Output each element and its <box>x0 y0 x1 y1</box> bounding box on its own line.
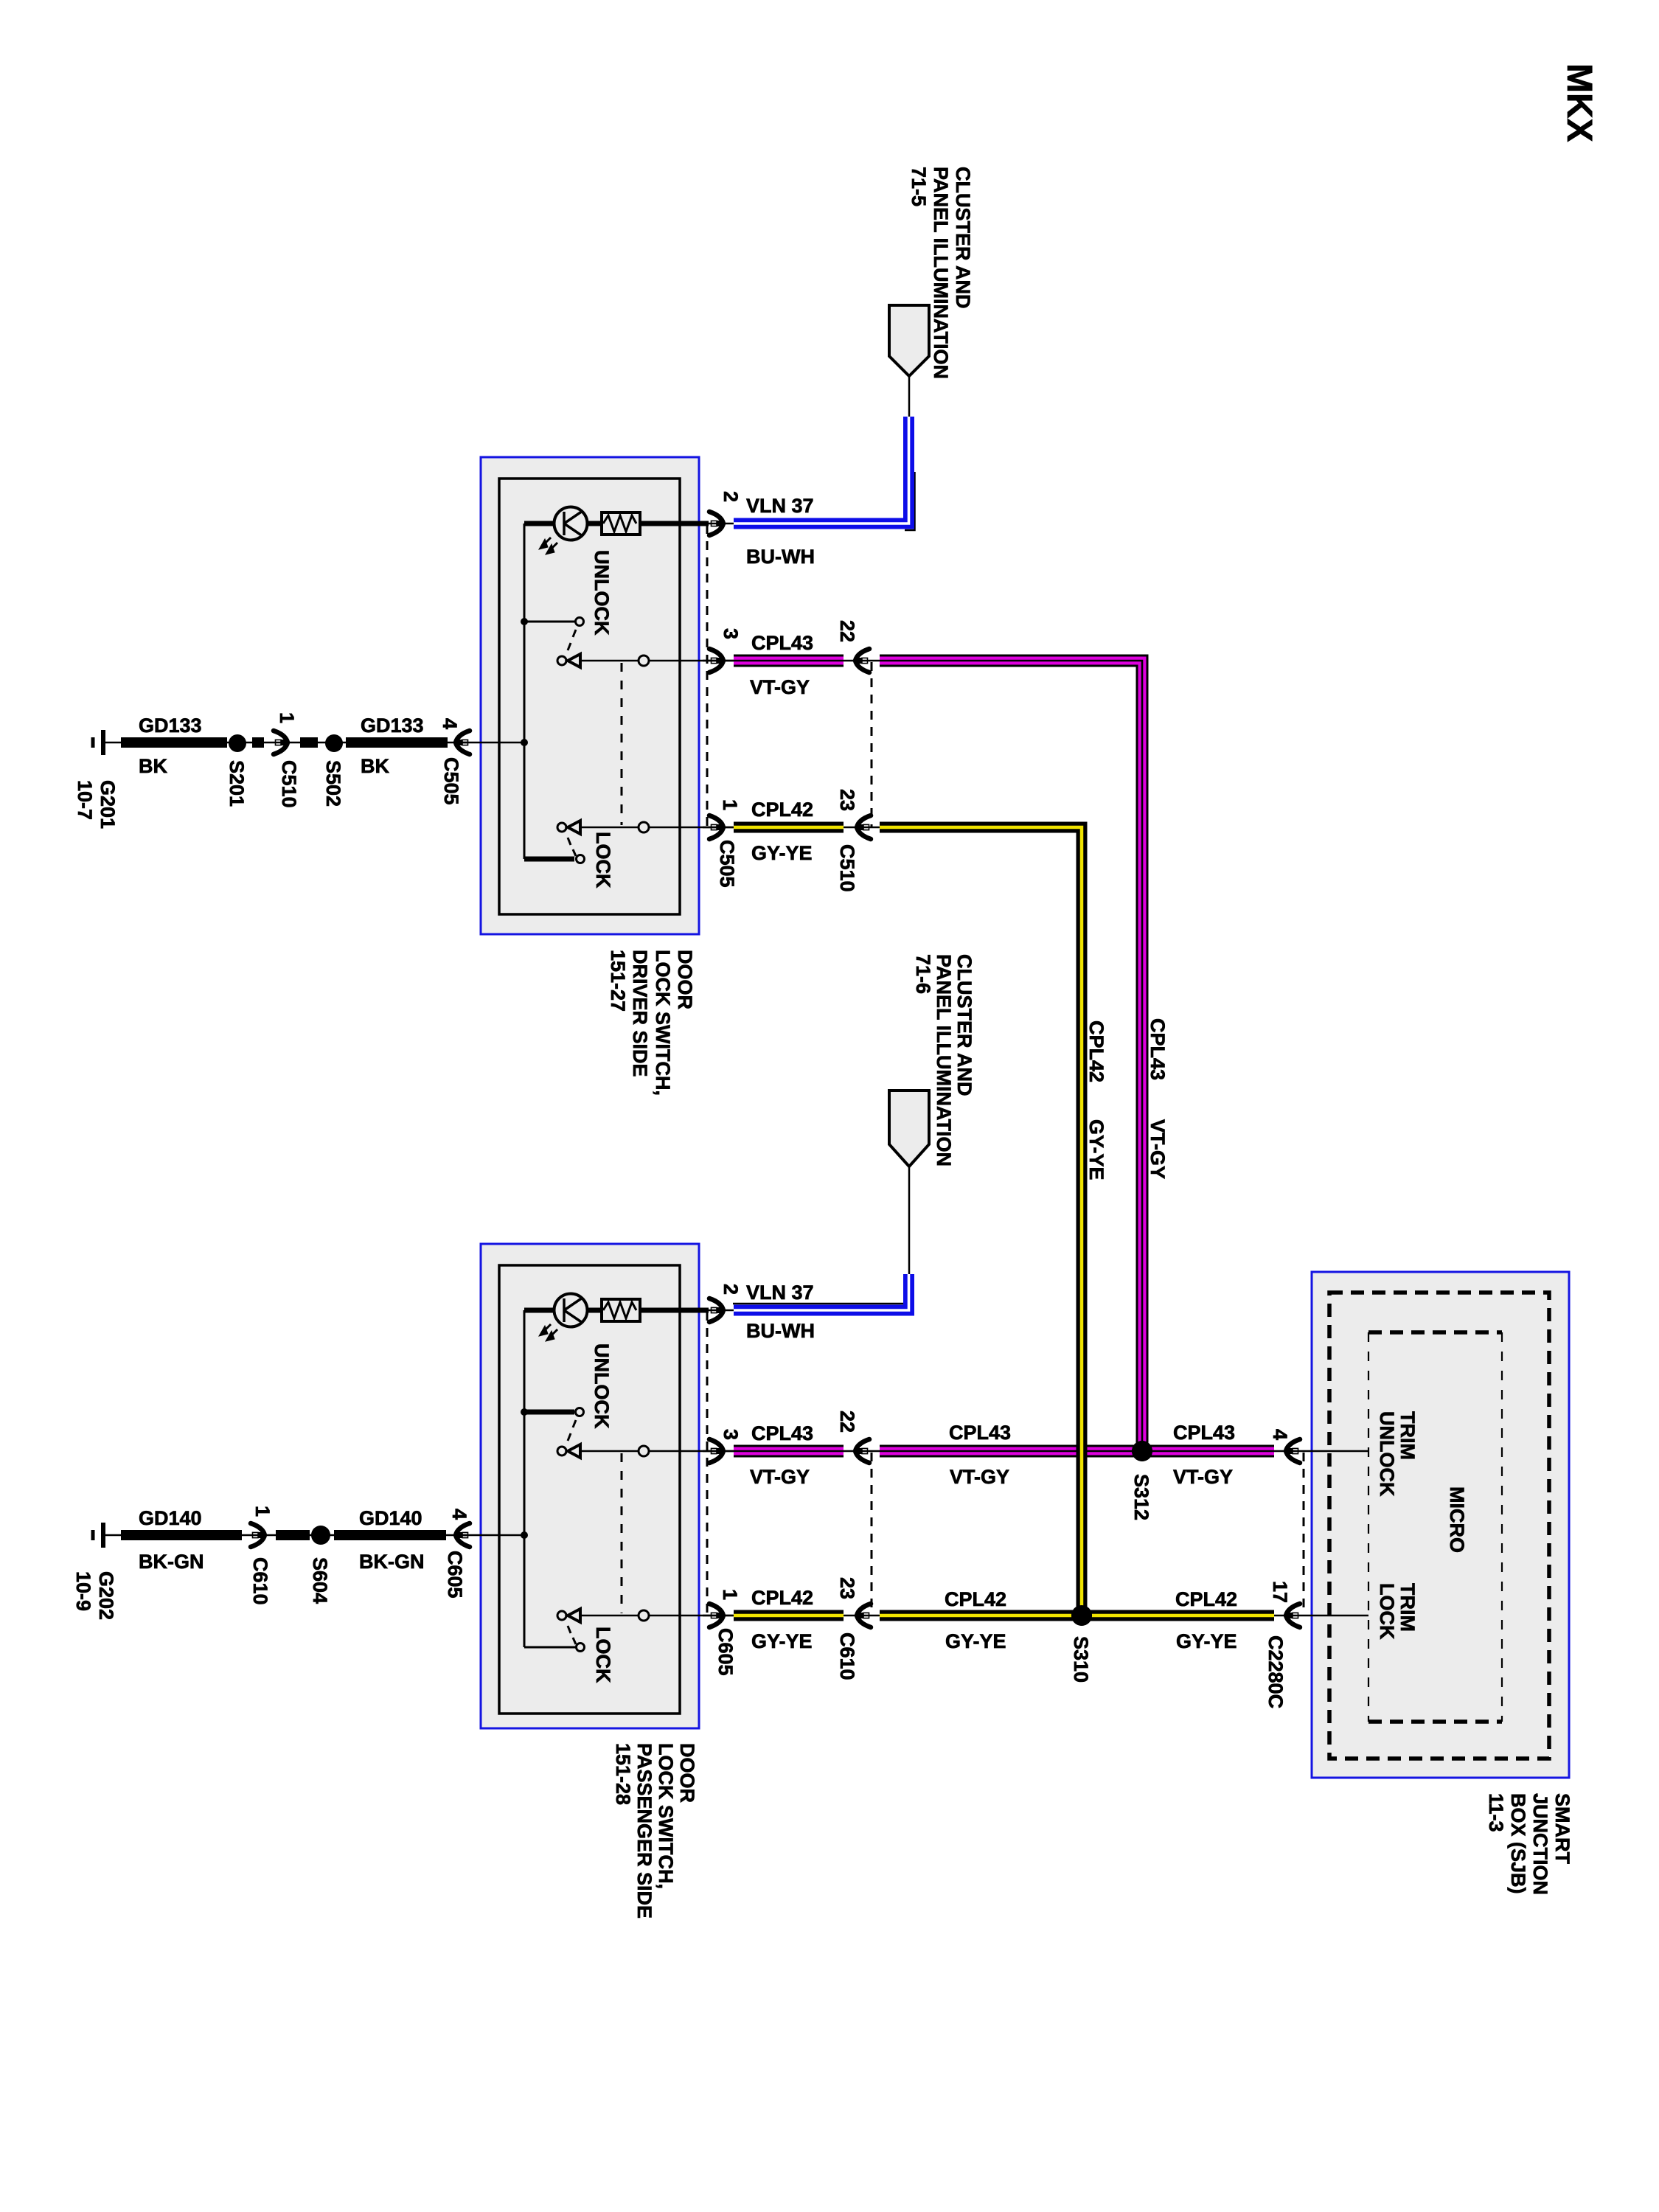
svg-text:CLUSTER AND: CLUSTER AND <box>952 167 974 309</box>
door lock switch driver side: inner box <box>499 479 680 914</box>
svg-text:S502: S502 <box>322 760 344 807</box>
svg-text:C610: C610 <box>836 1632 858 1680</box>
connector C610 pin 1 arrow <box>251 1523 265 1547</box>
svg-text:CPL43: CPL43 <box>1173 1422 1235 1444</box>
wire CPL43 VT-GY long run to S312 <box>880 661 1142 1450</box>
svg-text:C2280C: C2280C <box>1265 1635 1287 1708</box>
svg-text:4: 4 <box>439 718 461 729</box>
svg-text:BK: BK <box>139 755 167 777</box>
wire stub after C610 pin 1 <box>276 1530 310 1540</box>
svg-text:DOOR: DOOR <box>674 950 696 1009</box>
door lock switch passenger side: pin 1 wire <box>580 1615 734 1617</box>
svg-text:PANEL ILLUMINATION: PANEL ILLUMINATION <box>933 954 955 1166</box>
svg-text:LOCK: LOCK <box>592 1627 614 1683</box>
svg-text:DRIVER SIDE: DRIVER SIDE <box>629 950 651 1077</box>
ground G201 symbol <box>101 730 105 755</box>
svg-text:GD133: GD133 <box>139 714 202 737</box>
svg-text:MKX: MKX <box>1559 63 1599 142</box>
wire CPL42 GY-YE C605-C610: thin under line <box>703 1615 883 1617</box>
wire CPL43 VT-GY C610 to SJB <box>880 1445 1274 1458</box>
svg-text:22: 22 <box>836 1411 858 1433</box>
connector C605 dashed boundary <box>706 1312 709 1615</box>
door lock switch passenger side: lock contact travel dashes <box>568 1626 571 1633</box>
svg-text:LOCK: LOCK <box>592 832 614 888</box>
smart junction box: outer dashed box <box>1329 1293 1549 1759</box>
svg-text:3: 3 <box>720 628 742 639</box>
svg-text:BK: BK <box>361 755 389 777</box>
svg-text:C605: C605 <box>444 1551 466 1599</box>
door lock switch driver side: unlock contact travel dashes <box>573 630 576 637</box>
wire CPL42 GY-YE long run to S310 <box>880 827 1082 1610</box>
door lock switch driver side: illumination resistor <box>602 512 640 535</box>
wire CPL43 VT-GY C605-C610 <box>734 1445 844 1458</box>
svg-text:22: 22 <box>836 620 858 642</box>
wire GD133 BK segment 2 <box>346 737 448 748</box>
svg-text:1: 1 <box>719 1589 741 1600</box>
svg-text:10-7: 10-7 <box>74 780 96 820</box>
svg-text:BU-WH: BU-WH <box>746 1320 815 1342</box>
svg-text:11-3: 11-3 <box>1485 1793 1507 1832</box>
svg-text:GY-YE: GY-YE <box>945 1630 1006 1652</box>
wire CPL42 GY-YE segment C505-C510 <box>734 822 844 833</box>
svg-text:GY-YE: GY-YE <box>1176 1630 1237 1652</box>
smart junction box: trim unlock pin wire <box>1274 1450 1368 1453</box>
svg-text:CLUSTER AND: CLUSTER AND <box>953 954 975 1096</box>
cluster illumination 2: off-page connector symbol <box>889 1091 929 1166</box>
svg-text:LOCK: LOCK <box>1376 1583 1398 1640</box>
door lock switch passenger side: pin 1 connector arrow <box>709 1604 723 1627</box>
wire VLN 37 BU-WH (driver) <box>734 417 909 524</box>
svg-text:CPL42: CPL42 <box>751 799 813 821</box>
door lock switch passenger side: unlock contact travel dashes <box>573 1420 576 1427</box>
door lock switch driver side: lock contact stub <box>524 857 574 862</box>
connector C610 pin 22 arrow <box>855 1439 869 1463</box>
svg-text:GD133: GD133 <box>361 714 424 737</box>
door lock switch driver side: lock contact travel dashes <box>568 838 571 845</box>
connector C510 pin 22 arrow <box>855 649 869 672</box>
ground chain 1 thin wire <box>122 742 472 744</box>
splice S310 dot <box>1071 1605 1092 1626</box>
svg-text:LOCK SWITCH,: LOCK SWITCH, <box>652 950 674 1096</box>
door lock switch passenger side: pin 4 connector arrow <box>456 1523 470 1547</box>
wire stub after C510 pin 1 <box>300 737 318 748</box>
svg-text:BK-GN: BK-GN <box>359 1551 425 1573</box>
door lock switch driver side: pin 4 wire <box>472 742 524 744</box>
wire CPL43 VT-GY C605-C610: thin under line <box>703 1450 883 1453</box>
door lock switch passenger side: lock contact stub <box>524 1646 577 1649</box>
svg-text:2: 2 <box>720 491 742 502</box>
connector C610 pin 23 arrow <box>857 1604 871 1627</box>
door lock switch passenger side: lamp light arrows <box>548 1329 557 1339</box>
svg-text:DOOR: DOOR <box>676 1743 698 1803</box>
svg-text:CPL42: CPL42 <box>751 1587 813 1609</box>
splice S310 <box>1071 1605 1092 1626</box>
svg-text:GD140: GD140 <box>359 1507 422 1529</box>
splice S312 <box>1132 1441 1152 1461</box>
svg-text:1: 1 <box>719 799 741 810</box>
svg-text:C510: C510 <box>836 844 858 892</box>
cluster illumination 2: lead line <box>908 1166 911 1275</box>
svg-text:C505: C505 <box>440 757 462 805</box>
splice S201 <box>229 734 246 752</box>
door lock switch driver side: lamp light arrows <box>548 543 557 552</box>
svg-text:23: 23 <box>836 1577 858 1599</box>
door lock switch passenger side: pin 3 wire <box>580 1450 734 1453</box>
svg-text:BU-WH: BU-WH <box>746 546 815 568</box>
svg-text:CPL42: CPL42 <box>1175 1588 1237 1610</box>
svg-text:2: 2 <box>720 1284 742 1295</box>
wire CPL43 VT-GY segment C505-C510 <box>734 655 844 667</box>
door lock switch driver side: pin 3 connector arrow <box>709 649 723 672</box>
door lock switch passenger side: inner box <box>499 1265 680 1714</box>
splice S312 dot <box>1132 1441 1152 1461</box>
svg-text:G201: G201 <box>97 780 119 829</box>
ground G202 symbol <box>101 1523 105 1548</box>
connector C2280C dashed boundary <box>1303 1453 1305 1614</box>
svg-text:GY-YE: GY-YE <box>1085 1119 1107 1180</box>
door lock switch passenger side: unlock contact stub <box>524 1410 574 1415</box>
svg-text:C505: C505 <box>716 840 738 888</box>
door lock switch driver side: outer box <box>481 457 699 934</box>
svg-text:VT-GY: VT-GY <box>1147 1119 1169 1179</box>
svg-text:71-6: 71-6 <box>912 954 934 994</box>
wire GD140 BK-GN segment 1 <box>121 1530 242 1540</box>
splice S502 <box>325 734 343 752</box>
door lock switch driver side: unlock contact stub <box>524 621 575 623</box>
svg-text:10-9: 10-9 <box>72 1571 94 1611</box>
door lock switch driver side: internal bus wire <box>524 524 526 859</box>
svg-text:CPL42: CPL42 <box>1085 1020 1107 1082</box>
wire VLN 37 BU-WH (driver): under line at corner <box>905 472 915 530</box>
svg-text:C510: C510 <box>278 760 300 808</box>
smart junction box: trim lock pin wire <box>1274 1615 1368 1617</box>
door lock switch driver side: pin 4 connector arrow <box>456 731 470 754</box>
svg-text:17: 17 <box>1269 1581 1291 1603</box>
svg-text:BOX (SJB): BOX (SJB) <box>1507 1793 1529 1894</box>
svg-text:PANEL ILLUMINATION: PANEL ILLUMINATION <box>930 167 952 379</box>
door lock switch driver side: pin 2 connector arrow <box>709 512 723 535</box>
svg-text:S604: S604 <box>309 1557 331 1604</box>
wire CPL42 GY-YE C605-C610 <box>734 1610 844 1621</box>
door lock switch driver side: lock wiper <box>557 823 566 832</box>
door lock switch driver side: pin 1 wire <box>580 827 734 829</box>
svg-text:GY-YE: GY-YE <box>751 842 813 864</box>
connector C510 dashed boundary <box>871 662 873 827</box>
connector C2280C pin 17 arrow <box>1286 1604 1300 1627</box>
door lock switch passenger side: illumination resistor <box>602 1299 640 1321</box>
svg-text:VT-GY: VT-GY <box>750 676 810 698</box>
door lock switch passenger side: lamp feed wire <box>524 1308 709 1313</box>
door lock switch driver side: lamp feed wire <box>524 521 709 526</box>
wire GD133 BK segment 1 <box>121 737 227 748</box>
svg-text:S310: S310 <box>1070 1636 1092 1683</box>
wire CPL43 VT-GY segment C505-C510: thin under line <box>703 660 883 662</box>
svg-text:71-5: 71-5 <box>908 167 930 206</box>
wire VLN 37 BU-WH (passenger): top edge line <box>733 1303 907 1305</box>
cluster illumination 1: lead line <box>908 376 911 417</box>
connector C2280C pin 4 arrow <box>1286 1439 1300 1463</box>
svg-text:VLN 37: VLN 37 <box>746 1281 814 1304</box>
svg-text:TRIM: TRIM <box>1397 1411 1419 1460</box>
door lock switch passenger side: ganged-switch linkage dashed line <box>621 1453 623 1613</box>
ground chain 2 thin wire <box>122 1534 472 1537</box>
svg-text:4: 4 <box>1269 1429 1291 1440</box>
wire GD140 BK-GN segment 2 <box>334 1530 446 1540</box>
svg-text:TRIM: TRIM <box>1397 1583 1419 1632</box>
connector C505 dashed boundary <box>706 525 709 827</box>
connector C610 dashed boundary <box>871 1453 873 1615</box>
svg-text:VT-GY: VT-GY <box>750 1466 810 1488</box>
svg-text:3: 3 <box>720 1429 742 1440</box>
svg-text:4: 4 <box>448 1509 470 1520</box>
door lock switch driver side: pin 3 wire <box>580 660 734 662</box>
svg-text:BK-GN: BK-GN <box>139 1551 204 1573</box>
svg-text:GY-YE: GY-YE <box>751 1630 813 1652</box>
smart junction box: outer box <box>1312 1272 1569 1778</box>
door lock switch driver side: illumination lamp <box>554 507 588 540</box>
svg-text:VLN 37: VLN 37 <box>746 495 814 517</box>
svg-text:151-28: 151-28 <box>612 1743 634 1805</box>
door lock switch passenger side: pin 4 wire <box>472 1534 524 1537</box>
door lock switch passenger side: unlock wiper <box>557 1447 566 1455</box>
svg-text:C610: C610 <box>249 1557 271 1605</box>
svg-text:CPL43: CPL43 <box>1147 1018 1169 1080</box>
svg-text:1: 1 <box>251 1506 274 1517</box>
cluster illumination 1: off-page connector symbol <box>889 305 929 376</box>
svg-text:JUNCTION: JUNCTION <box>1529 1793 1551 1895</box>
svg-text:PASSENGER SIDE: PASSENGER SIDE <box>633 1743 655 1919</box>
wire stub before C510 pin 1 <box>252 737 264 748</box>
door lock switch driver side: ganged-switch linkage dashed line <box>621 663 623 825</box>
svg-text:VT-GY: VT-GY <box>950 1466 1009 1488</box>
svg-text:1: 1 <box>276 712 298 723</box>
wire CPL42 GY-YE segment C505-C510: thin under line <box>703 827 883 829</box>
svg-text:151-27: 151-27 <box>607 950 629 1012</box>
svg-text:VT-GY: VT-GY <box>1173 1466 1233 1488</box>
door lock switch driver side: pin 1 connector arrow <box>709 815 723 839</box>
door lock switch passenger side: outer box <box>481 1244 699 1728</box>
svg-text:23: 23 <box>836 789 858 811</box>
door lock switch driver side: unlock wiper <box>557 656 566 665</box>
svg-text:CPL43: CPL43 <box>949 1422 1011 1444</box>
connector C510 pin 1 arrow <box>274 731 288 754</box>
svg-text:CPL43: CPL43 <box>751 632 813 654</box>
svg-text:CPL42: CPL42 <box>945 1588 1006 1610</box>
svg-text:UNLOCK: UNLOCK <box>591 550 613 636</box>
svg-text:CPL43: CPL43 <box>751 1422 813 1444</box>
svg-text:MICRO: MICRO <box>1446 1486 1468 1553</box>
door lock switch passenger side: internal bus wire <box>524 1310 526 1647</box>
splice S604 <box>311 1526 330 1545</box>
svg-text:SMART: SMART <box>1551 1793 1573 1864</box>
svg-text:G202: G202 <box>95 1571 117 1620</box>
svg-text:LOCK SWITCH,: LOCK SWITCH, <box>655 1743 677 1889</box>
door lock switch passenger side: pin 2 connector arrow <box>709 1298 723 1322</box>
wire CPL42 GY-YE C610 to SJB <box>880 1610 1274 1621</box>
door lock switch passenger side: pin 3 connector arrow <box>709 1439 723 1463</box>
smart junction box: micro dashed box <box>1368 1330 1502 1335</box>
svg-text:S312: S312 <box>1130 1474 1152 1520</box>
svg-text:UNLOCK: UNLOCK <box>591 1343 613 1429</box>
connector C510 pin 23 arrow <box>857 815 871 839</box>
svg-text:UNLOCK: UNLOCK <box>1376 1411 1398 1497</box>
svg-text:C605: C605 <box>714 1628 737 1676</box>
door lock switch passenger side: lock wiper <box>557 1611 566 1620</box>
svg-text:GD140: GD140 <box>139 1507 202 1529</box>
wire VLN 37 BU-WH (passenger) <box>734 1274 909 1310</box>
door lock switch passenger side: illumination lamp <box>554 1294 588 1327</box>
svg-text:S201: S201 <box>226 760 248 807</box>
